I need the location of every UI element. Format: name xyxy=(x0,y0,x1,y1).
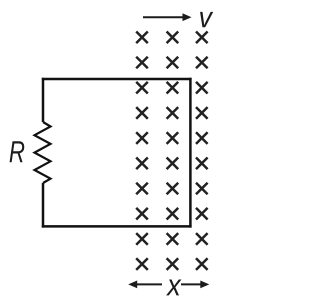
magnetic field symbols (B into page) xyxy=(136,32,207,270)
wire top xyxy=(42,78,192,81)
label x xyxy=(166,280,181,296)
label v xyxy=(200,12,213,27)
wire left upper xyxy=(42,78,45,122)
dimension arrow x (field width) xyxy=(128,281,209,289)
wire right xyxy=(189,78,192,228)
velocity arrow v xyxy=(143,13,192,21)
resistor R xyxy=(35,122,51,183)
wire bottom xyxy=(42,225,192,228)
wire left lower xyxy=(42,183,45,228)
label R xyxy=(10,141,25,162)
